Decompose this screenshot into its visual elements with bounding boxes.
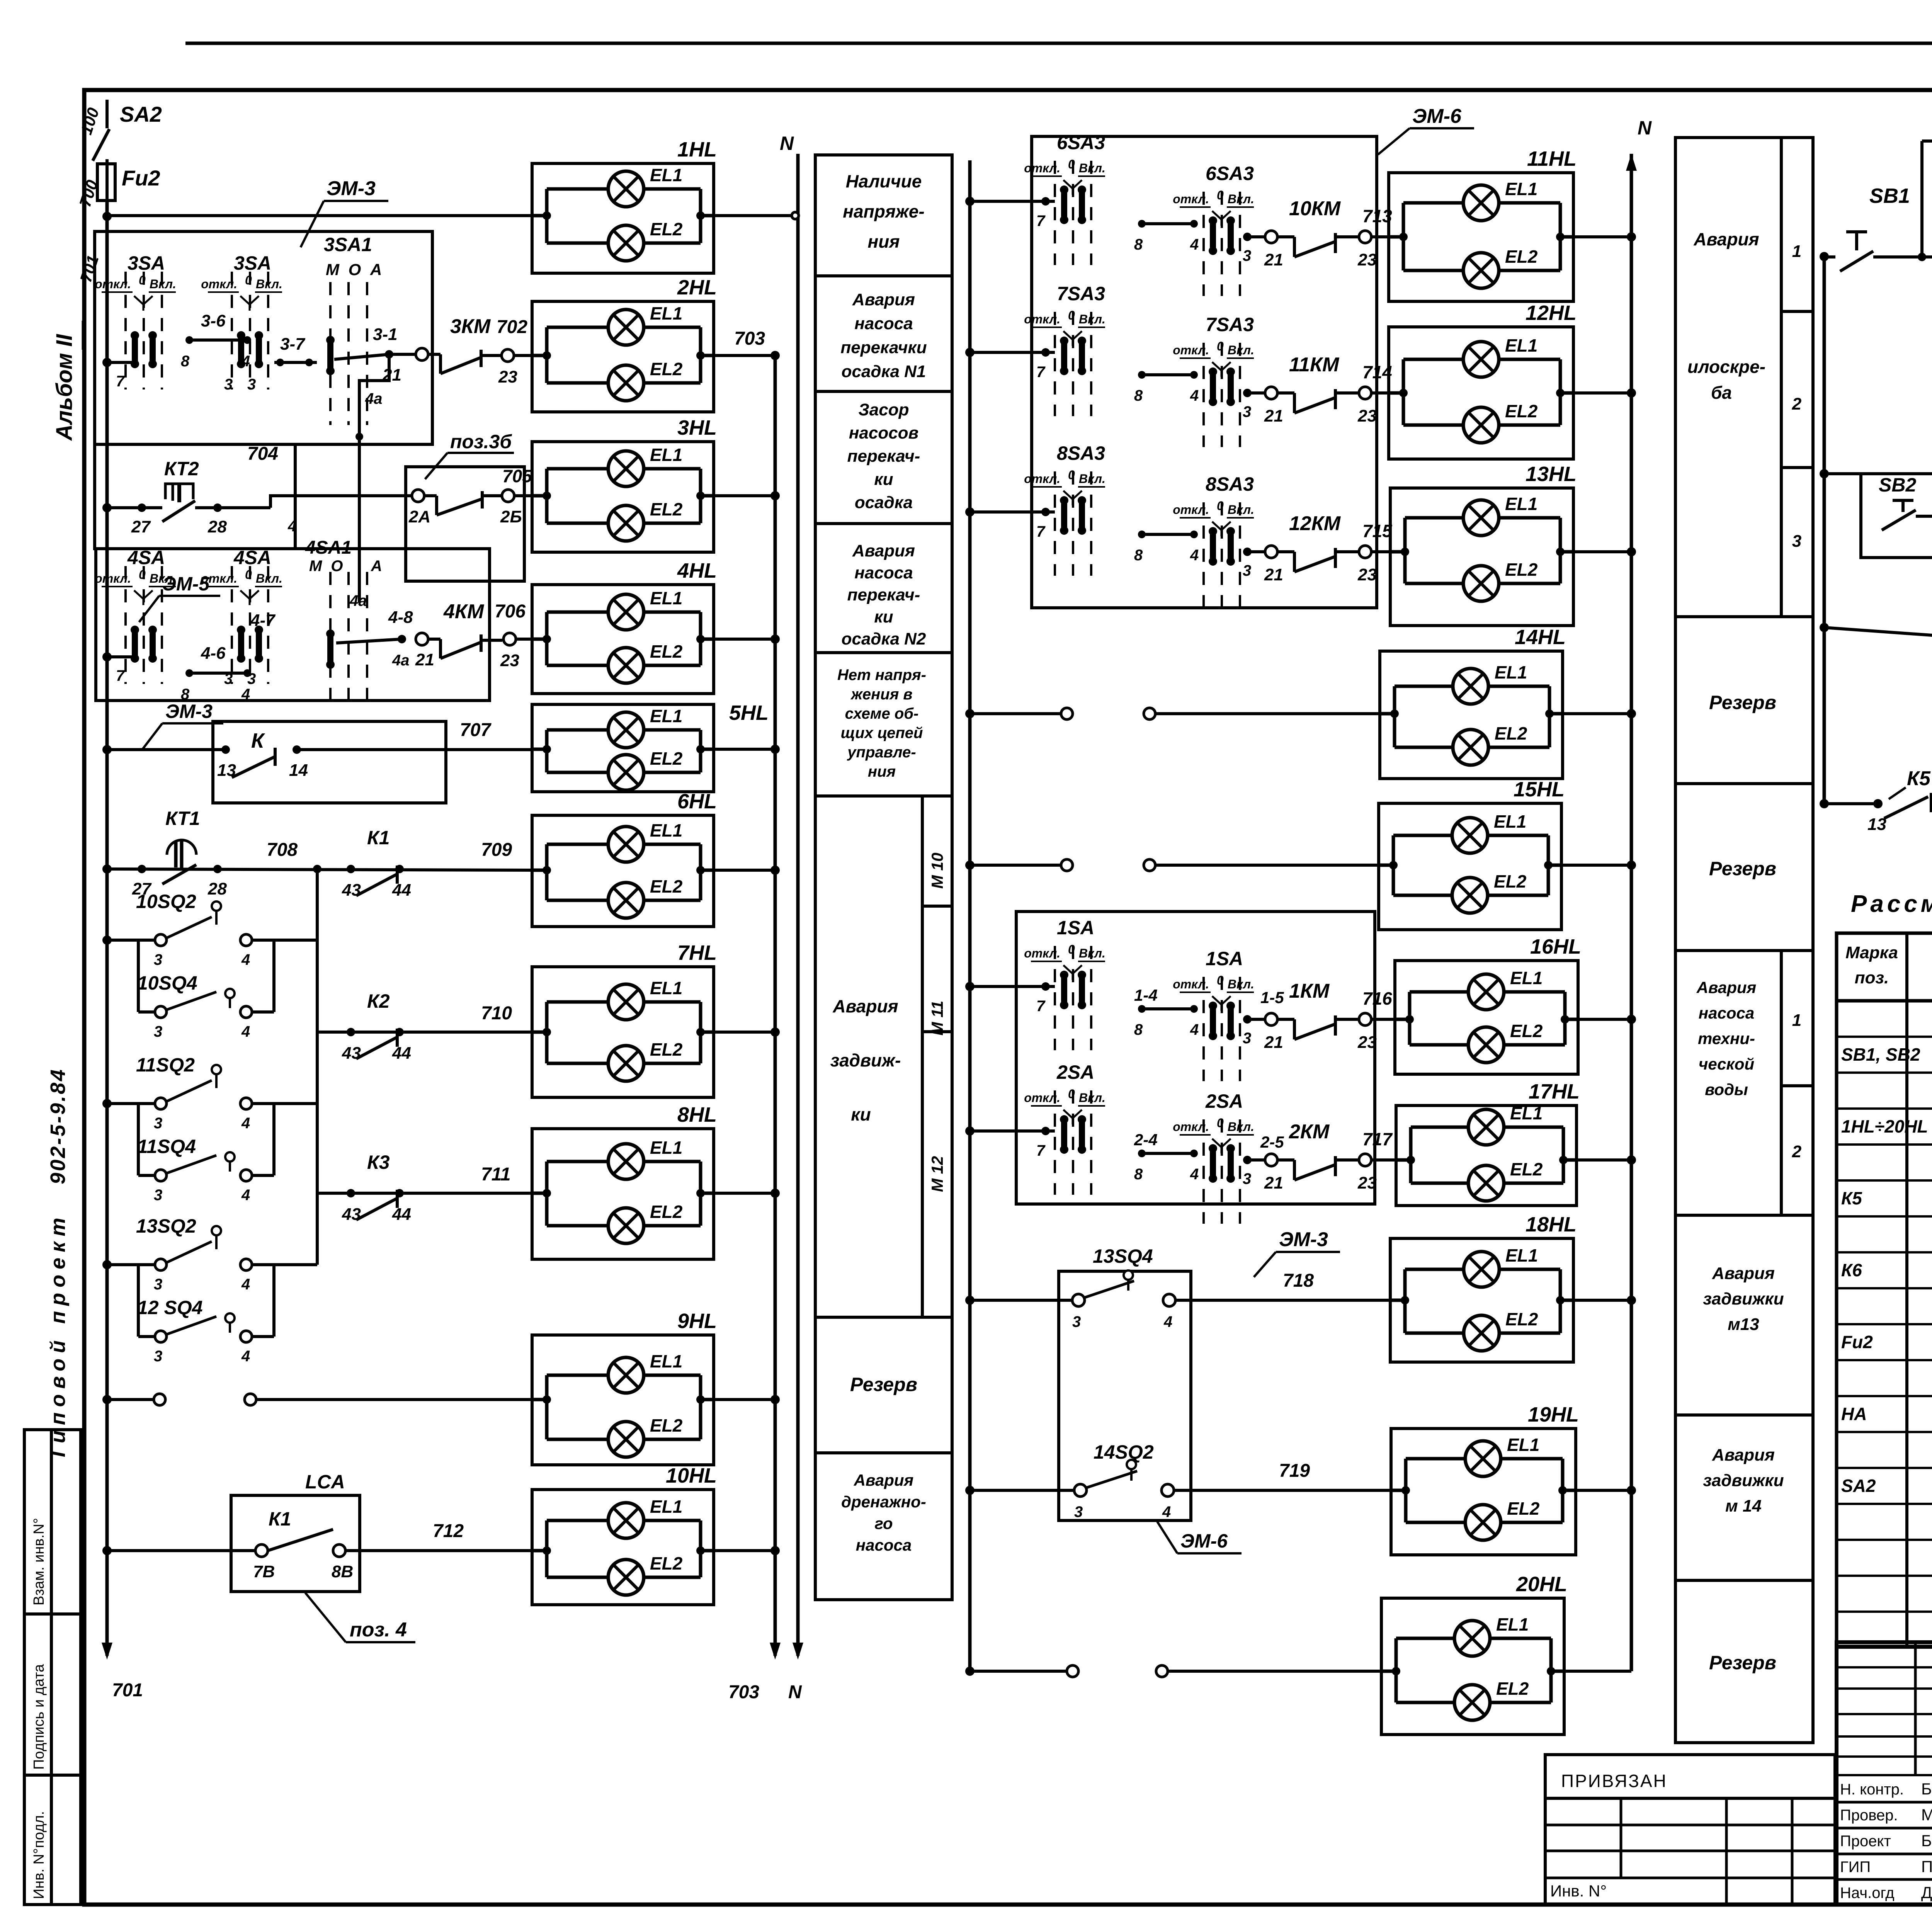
- svg-text:2КМ: 2КМ: [1289, 1121, 1330, 1143]
- svg-text:8: 8: [1134, 547, 1143, 564]
- lamp EL1 of 20HL: [1396, 1637, 1454, 1640]
- lamp EL1 of 8HL: [547, 1160, 608, 1163]
- svg-text:701: 701: [112, 1680, 143, 1701]
- svg-text:713: 713: [1362, 206, 1392, 226]
- svg-text:44: 44: [392, 881, 411, 900]
- svg-text:Вкл.: Вкл.: [1228, 192, 1254, 206]
- wire lamp row to 703 bus: [714, 1549, 775, 1552]
- svg-text:EL2: EL2: [650, 359, 683, 379]
- svg-text:6SA3: 6SA3: [1206, 163, 1254, 184]
- svg-text:4: 4: [241, 951, 250, 968]
- svg-text:EL1: EL1: [650, 445, 682, 465]
- svg-text:711: 711: [481, 1164, 511, 1185]
- lamp EL1 of 5HL: [547, 728, 608, 732]
- lamp EL1 of 18HL: [1405, 1268, 1464, 1271]
- packet switch group 7SA3: [1054, 312, 1056, 416]
- selector 3SA1 МОА: [329, 282, 332, 425]
- wire row 7: [317, 1031, 532, 1034]
- svg-text:3-7: 3-7: [280, 335, 306, 354]
- svg-text:EL1: EL1: [1505, 1245, 1538, 1265]
- svg-text:Резерв: Резерв: [1709, 692, 1776, 713]
- svg-text:Авария: Авария: [1693, 229, 1759, 249]
- lamp EL1 of 3HL: [547, 467, 608, 471]
- svg-text:откл.: откл.: [1173, 192, 1209, 206]
- lamp panel 7HL: [532, 967, 714, 1097]
- svg-text:ба: ба: [1711, 383, 1732, 403]
- svg-text:ния: ния: [868, 231, 900, 252]
- svg-text:откл.: откл.: [1024, 312, 1060, 326]
- wire lamp row to 703 bus: [714, 748, 775, 751]
- svg-text:1HL÷20HL: 1HL÷20HL: [1841, 1116, 1928, 1136]
- svg-text:М 12: М 12: [928, 1156, 946, 1192]
- svg-text:2SA: 2SA: [1056, 1061, 1094, 1083]
- svg-text:Засор: Засор: [859, 400, 909, 419]
- svg-text:Провер.: Провер.: [1840, 1807, 1898, 1824]
- node feed 3SA row: [102, 358, 112, 367]
- svg-text:откл.: откл.: [201, 571, 237, 585]
- reserve row terminals: [965, 861, 975, 870]
- limit switch 11SQ2: [102, 1099, 112, 1108]
- lamp EL1 of 15HL: [1393, 834, 1452, 837]
- svg-text:14SQ2: 14SQ2: [1094, 1441, 1154, 1463]
- svg-text:3: 3: [247, 376, 256, 393]
- svg-text:напряже-: напряже-: [843, 201, 924, 221]
- svg-text:щих цепей: щих цепей: [841, 724, 923, 742]
- contactor auxiliary contact 1КМ: [1243, 1015, 1252, 1024]
- svg-text:Проект: Проект: [1840, 1833, 1891, 1850]
- lamp EL1 of 17HL: [1411, 1126, 1468, 1129]
- sub column Авария илоскреба: [1780, 138, 1783, 617]
- svg-text:Вкл.: Вкл.: [1228, 503, 1254, 517]
- svg-text:8: 8: [181, 353, 190, 370]
- svg-text:16HL: 16HL: [1530, 935, 1581, 958]
- svg-text:3: 3: [1072, 1313, 1081, 1330]
- lamp panel 2HL: [532, 301, 714, 412]
- svg-text:1HL: 1HL: [677, 138, 717, 161]
- wire row 6: [102, 864, 112, 874]
- wire lamp row to 703 bus: [714, 869, 775, 872]
- svg-text:поз.3б: поз.3б: [450, 431, 512, 452]
- svg-text:23: 23: [1357, 565, 1377, 584]
- ЭМ-6 block box: [1032, 136, 1377, 608]
- sub column М10 М11 М12: [921, 796, 924, 1317]
- svg-text:14HL: 14HL: [1515, 626, 1566, 649]
- svg-text:1-5: 1-5: [1260, 988, 1284, 1007]
- aux bus for SQ rows: [316, 869, 319, 1265]
- svg-text:15HL: 15HL: [1514, 778, 1565, 801]
- lamp panel 13HL: [1390, 488, 1573, 626]
- lamp EL2 of 10HL: [547, 1576, 608, 1579]
- svg-text:Авария: Авария: [1696, 978, 1757, 997]
- svg-text:708: 708: [267, 840, 298, 860]
- svg-text:откл.: откл.: [1173, 1120, 1209, 1134]
- svg-text:23: 23: [1357, 406, 1377, 425]
- svg-text:27: 27: [131, 517, 151, 536]
- svg-text:EL1: EL1: [1507, 1435, 1539, 1455]
- packet switch group 2SA: [1054, 1090, 1056, 1195]
- wire lamp row to 703 bus: [714, 1398, 775, 1401]
- svg-text:4а: 4а: [365, 390, 383, 407]
- svg-text:23: 23: [498, 367, 517, 386]
- svg-text:3: 3: [1074, 1503, 1083, 1520]
- svg-text:перекачки: перекачки: [840, 338, 927, 357]
- lamp EL1 of 2HL: [547, 326, 608, 329]
- contact block LCA: [231, 1495, 360, 1592]
- contact block поз.3б: [406, 467, 524, 581]
- svg-text:Взам. инв.N°: Взам. инв.N°: [31, 1518, 47, 1605]
- svg-text:EL1: EL1: [650, 165, 682, 185]
- svg-text:EL2: EL2: [1510, 1159, 1543, 1179]
- svg-text:EL1: EL1: [650, 706, 682, 726]
- svg-text:21: 21: [1264, 565, 1283, 584]
- svg-text:3: 3: [1792, 532, 1801, 551]
- lamp EL2 of 1HL: [547, 241, 608, 245]
- svg-text:2: 2: [1792, 1142, 1802, 1161]
- svg-text:Авария: Авария: [852, 290, 915, 309]
- switch row 1SA: [965, 982, 975, 991]
- lamp panel 17HL: [1396, 1105, 1577, 1206]
- contact К1 78-88: [255, 1544, 268, 1557]
- dashed-line block 4SA: [96, 549, 490, 701]
- svg-text:7SA3: 7SA3: [1206, 314, 1254, 335]
- svg-text:Fu2: Fu2: [122, 166, 160, 190]
- packet switch group 3SA: [231, 272, 233, 389]
- svg-text:7В: 7В: [253, 1562, 275, 1581]
- svg-text:2: 2: [1792, 395, 1802, 413]
- svg-text:Нет напря-: Нет напря-: [837, 667, 926, 684]
- svg-text:ЭМ-3: ЭМ-3: [1279, 1228, 1328, 1251]
- lamp EL2 of 17HL: [1411, 1182, 1468, 1185]
- terminal 706: [503, 633, 516, 645]
- sub column Авария насоса технической воды: [1780, 951, 1783, 1215]
- svg-text:2HL: 2HL: [677, 276, 717, 299]
- svg-text:10SQ2: 10SQ2: [136, 891, 196, 912]
- svg-text:EL1: EL1: [650, 978, 682, 998]
- svg-text:1КМ: 1КМ: [1289, 980, 1330, 1002]
- svg-text:жения в: жения в: [850, 686, 912, 703]
- wire КТ2 row: [102, 503, 112, 512]
- svg-text:К1: К1: [367, 827, 390, 849]
- svg-text:Рассматривать совместно с ли: Рассматривать совместно с листами эм-3, …: [1851, 891, 1932, 917]
- packet switch group 8SA3: [1202, 502, 1205, 607]
- svg-text:откл.: откл.: [1024, 472, 1060, 486]
- svg-text:осадка: осадка: [855, 493, 913, 512]
- lamp panel 16HL: [1395, 961, 1578, 1074]
- lamp EL2 of 14HL: [1395, 746, 1453, 749]
- svg-text:4-7: 4-7: [250, 611, 276, 630]
- lamp EL1 of 7HL: [547, 1000, 608, 1004]
- switch row 2SA: [965, 1126, 975, 1136]
- svg-text:28: 28: [207, 517, 227, 536]
- svg-text:схеме об-: схеме об-: [845, 705, 919, 722]
- svg-text:А: А: [371, 558, 382, 575]
- svg-text:13SQ2: 13SQ2: [136, 1215, 196, 1237]
- svg-text:4а: 4а: [349, 592, 367, 609]
- svg-text:7: 7: [116, 667, 125, 684]
- svg-text:2-5: 2-5: [1260, 1133, 1284, 1151]
- packet switch group 7SA3: [1202, 343, 1205, 447]
- svg-text:3: 3: [154, 1187, 162, 1204]
- lamp EL2 of 4HL: [547, 664, 608, 667]
- svg-text:2SA: 2SA: [1205, 1090, 1243, 1112]
- svg-text:23: 23: [1357, 1173, 1377, 1192]
- svg-text:13HL: 13HL: [1526, 463, 1577, 486]
- svg-text:10КМ: 10КМ: [1289, 197, 1341, 220]
- feed tap row 8SA3: [965, 507, 975, 517]
- link 8-4 row 8SA3: [1138, 531, 1146, 538]
- svg-text:К1: К1: [269, 1508, 291, 1530]
- wire to 15: [1820, 469, 1829, 478]
- fuse Fu2: [97, 164, 115, 201]
- svg-text:8HL: 8HL: [677, 1103, 717, 1126]
- svg-text:EL1: EL1: [650, 303, 682, 323]
- lamp EL2 of 20HL: [1396, 1701, 1454, 1704]
- svg-text:Нач.огд: Нач.огд: [1840, 1884, 1895, 1901]
- svg-text:3-1: 3-1: [373, 325, 398, 344]
- svg-text:Резерв: Резерв: [850, 1374, 917, 1395]
- wire row 5: [102, 745, 112, 754]
- svg-text:28: 28: [207, 879, 227, 898]
- svg-text:ГИП: ГИП: [1840, 1859, 1871, 1876]
- packet switch group 4SA: [231, 566, 233, 684]
- svg-text:23: 23: [1357, 250, 1377, 269]
- feed tap row 6SA3: [965, 197, 975, 206]
- svg-text:3: 3: [1243, 1030, 1251, 1047]
- svg-text:SA2: SA2: [1841, 1476, 1876, 1496]
- wire row 9 reserve terminals: [102, 1395, 112, 1404]
- svg-text:8В: 8В: [332, 1562, 353, 1581]
- svg-text:управле-: управле-: [847, 744, 916, 761]
- svg-text:Марка: Марка: [1845, 943, 1898, 962]
- svg-text:3: 3: [154, 1276, 162, 1293]
- svg-text:3: 3: [247, 670, 256, 687]
- contactor auxiliary contact 11КМ: [1243, 389, 1252, 397]
- stamp column box: [24, 1430, 81, 1905]
- svg-text:7HL: 7HL: [677, 941, 717, 964]
- svg-text:4КМ: 4КМ: [443, 600, 485, 623]
- lamp EL1 of 9HL: [547, 1374, 608, 1377]
- svg-text:Вкл.: Вкл.: [1228, 1120, 1254, 1134]
- contact 4КМ: [416, 633, 428, 645]
- svg-text:3КМ: 3КМ: [450, 315, 491, 338]
- svg-text:8SA3: 8SA3: [1057, 442, 1105, 464]
- lamp panel 15HL: [1379, 803, 1561, 930]
- paper top edge line: [185, 42, 1932, 45]
- svg-text:НА: НА: [1841, 1404, 1867, 1424]
- lamp EL1 of 14HL: [1395, 685, 1453, 688]
- svg-text:709: 709: [481, 840, 512, 860]
- svg-text:насоса: насоса: [1699, 1004, 1754, 1022]
- svg-text:1-4: 1-4: [1134, 986, 1158, 1004]
- svg-text:Н. контр.: Н. контр.: [1840, 1781, 1904, 1798]
- lamp panel 6HL: [532, 815, 714, 927]
- svg-text:11HL: 11HL: [1527, 147, 1577, 170]
- svg-text:10SQ4: 10SQ4: [137, 972, 197, 994]
- svg-text:откл.: откл.: [95, 571, 131, 585]
- svg-text:м 14: м 14: [1725, 1497, 1762, 1515]
- svg-text:0: 0: [1068, 308, 1075, 322]
- svg-text:илоскре-: илоскре-: [1687, 357, 1765, 377]
- svg-text:3: 3: [1243, 562, 1251, 579]
- contactor auxiliary contact 12КМ: [1243, 548, 1252, 556]
- svg-text:EL1: EL1: [650, 820, 682, 840]
- svg-text:откл.: откл.: [1024, 161, 1060, 175]
- svg-text:3: 3: [154, 1348, 162, 1365]
- svg-text:3HL: 3HL: [677, 416, 717, 439]
- wire to 11: [1820, 623, 1829, 632]
- svg-text:Типовой проект: Типовой проект: [46, 1212, 70, 1461]
- svg-text:23: 23: [500, 651, 519, 670]
- svg-text:8: 8: [1134, 1021, 1143, 1038]
- switch SA2: [93, 129, 109, 161]
- svg-text:Вкл.: Вкл.: [150, 277, 176, 291]
- wire 701 row to 1HL: [107, 214, 532, 217]
- svg-text:0: 0: [1217, 973, 1224, 987]
- svg-text:10HL: 10HL: [666, 1464, 717, 1487]
- bus 703 left column: [774, 355, 777, 1656]
- svg-text:Вкл.: Вкл.: [1228, 343, 1254, 357]
- svg-text:ния: ния: [868, 763, 896, 780]
- link 3-6: [185, 336, 193, 344]
- lamp EL1 of 16HL: [1410, 990, 1468, 994]
- svg-text:3: 3: [224, 670, 233, 687]
- lamp EL2 of 6HL: [547, 899, 608, 902]
- svg-text:6SA3: 6SA3: [1057, 132, 1105, 153]
- lamp EL1 of 10HL: [547, 1519, 608, 1522]
- svg-text:откл.: откл.: [1173, 343, 1209, 357]
- svg-text:0: 0: [139, 568, 146, 582]
- lamp EL1 of 19HL: [1406, 1457, 1465, 1461]
- packet switch group 2SA: [1202, 1119, 1205, 1224]
- lamp panel 10HL: [532, 1490, 714, 1605]
- svg-text:7: 7: [1036, 998, 1046, 1015]
- svg-text:задвижки: задвижки: [1703, 1471, 1784, 1490]
- svg-text:43: 43: [342, 1044, 361, 1063]
- svg-text:Инв. N°подл.: Инв. N°подл.: [31, 1811, 47, 1899]
- svg-text:Вкл.: Вкл.: [1228, 977, 1254, 991]
- svg-text:3: 3: [1243, 1170, 1251, 1187]
- relay contact block К: [213, 721, 446, 803]
- svg-text:ческой: ческой: [1699, 1055, 1754, 1073]
- svg-text:704: 704: [247, 444, 278, 464]
- svg-text:4: 4: [241, 1348, 250, 1365]
- svg-text:Вкл.: Вкл.: [150, 571, 176, 585]
- svg-text:4-8: 4-8: [388, 608, 413, 627]
- svg-text:710: 710: [481, 1003, 512, 1024]
- svg-text:Павлова: Павлова: [1921, 1857, 1932, 1876]
- dashed-line block ЭМ-3 middle: [1016, 912, 1375, 1204]
- svg-text:Авария: Авария: [1712, 1264, 1775, 1283]
- title block outer: [1837, 1642, 1932, 1905]
- svg-text:0: 0: [1217, 339, 1224, 353]
- lamp EL2 of 7HL: [547, 1062, 608, 1065]
- svg-text:43: 43: [342, 1205, 361, 1224]
- svg-text:КТ2: КТ2: [164, 458, 199, 480]
- svg-text:4: 4: [1162, 1503, 1171, 1520]
- svg-text:3SA: 3SA: [234, 252, 271, 274]
- svg-text:EL2: EL2: [650, 499, 683, 519]
- svg-text:8: 8: [1134, 387, 1143, 404]
- limit switch block 13SQ4 14SQ2: [1059, 1271, 1191, 1520]
- lamp EL2 of 18HL: [1405, 1332, 1464, 1335]
- svg-text:LCA: LCA: [305, 1471, 345, 1493]
- lamp EL1 of 4HL: [547, 611, 608, 614]
- svg-text:EL2: EL2: [1505, 247, 1538, 267]
- svg-text:EL1: EL1: [650, 1351, 682, 1371]
- svg-text:техни-: техни-: [1698, 1029, 1755, 1048]
- junction to aux bus: [313, 865, 321, 873]
- svg-text:2Б: 2Б: [500, 507, 522, 526]
- svg-text:11КМ: 11КМ: [1289, 354, 1340, 376]
- svg-text:4SA1: 4SA1: [305, 537, 352, 558]
- svg-text:N: N: [780, 133, 794, 154]
- svg-text:М 10: М 10: [928, 853, 946, 889]
- svg-text:0: 0: [1068, 468, 1075, 482]
- svg-text:9HL: 9HL: [677, 1310, 717, 1333]
- svg-text:N: N: [1638, 117, 1652, 139]
- svg-text:4: 4: [1190, 1021, 1199, 1038]
- wire lamp row to 703 bus: [714, 638, 775, 641]
- contact К 13-14: [221, 745, 230, 754]
- lamp panel 12HL: [1389, 327, 1573, 459]
- wire row 10: [102, 1546, 112, 1555]
- svg-text:К6: К6: [1841, 1260, 1862, 1280]
- parts table: [1837, 933, 1932, 1646]
- svg-text:1: 1: [1792, 242, 1801, 261]
- svg-text:ки: ки: [874, 607, 893, 626]
- feed bus middle section: [968, 160, 972, 1671]
- svg-text:4SA: 4SA: [233, 547, 271, 568]
- svg-text:перекач-: перекач-: [847, 447, 920, 466]
- svg-text:0: 0: [1068, 157, 1075, 171]
- svg-text:8: 8: [1134, 236, 1143, 253]
- lamp panel 14HL: [1380, 651, 1563, 779]
- svg-text:3-6: 3-6: [201, 311, 226, 330]
- svg-text:1: 1: [1792, 1011, 1801, 1030]
- wire 20HL to N bus corner: [1564, 1670, 1631, 1673]
- wire 721: [1861, 475, 1932, 558]
- wire 700: [105, 159, 109, 164]
- packet switch group 8SA3: [1054, 471, 1056, 576]
- svg-text:К5: К5: [1907, 767, 1931, 790]
- middle annotation column: [815, 155, 952, 1600]
- svg-text:8SA3: 8SA3: [1206, 473, 1254, 495]
- svg-text:EL2: EL2: [1510, 1021, 1543, 1041]
- svg-text:EL2: EL2: [650, 1039, 683, 1060]
- svg-text:EL1: EL1: [1505, 335, 1537, 355]
- svg-text:К2: К2: [367, 990, 390, 1012]
- svg-text:ки: ки: [874, 470, 893, 489]
- svg-text:7: 7: [1036, 523, 1046, 540]
- svg-text:703: 703: [728, 1682, 759, 1702]
- svg-text:18HL: 18HL: [1526, 1213, 1577, 1236]
- svg-text:EL2: EL2: [650, 748, 683, 769]
- lamp EL2 of 16HL: [1410, 1043, 1468, 1047]
- svg-text:Авария: Авария: [1712, 1446, 1775, 1464]
- svg-text:11SQ2: 11SQ2: [136, 1054, 195, 1076]
- svg-text:EL1: EL1: [1510, 1103, 1543, 1123]
- svg-text:21: 21: [1264, 250, 1283, 269]
- svg-text:EL1: EL1: [1496, 1614, 1529, 1634]
- lamp EL2 of 8HL: [547, 1224, 608, 1228]
- svg-text:4а: 4а: [392, 652, 410, 669]
- packet switch group 6SA3: [1054, 161, 1056, 265]
- lamp panel 9HL: [532, 1335, 714, 1465]
- svg-text:Вкл.: Вкл.: [256, 571, 282, 585]
- svg-text:707: 707: [460, 720, 492, 740]
- svg-text:EL2: EL2: [1495, 723, 1527, 743]
- svg-text:осадка N2: осадка N2: [842, 629, 926, 648]
